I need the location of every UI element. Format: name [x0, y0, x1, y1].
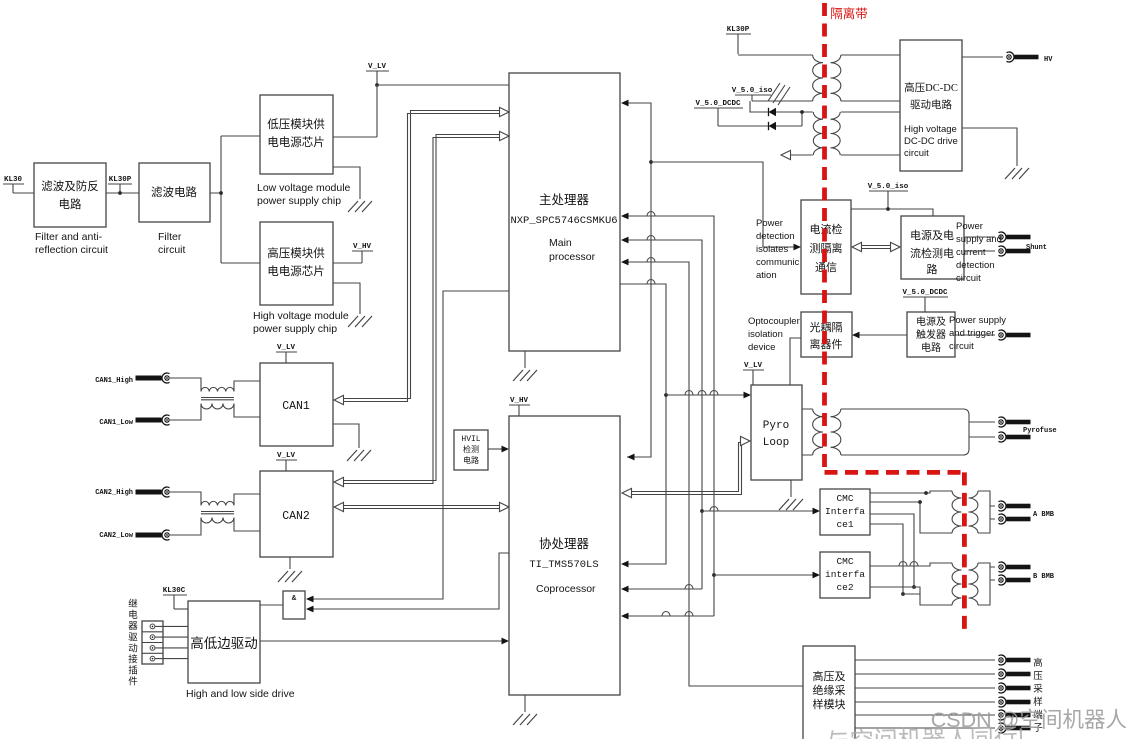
ground main processor — [513, 370, 537, 381]
ground high voltage chip — [348, 316, 372, 327]
svg-text:device: device — [748, 342, 775, 353]
block Pyro Loop — [751, 385, 802, 480]
wire tap2 bottom into coprocessor — [627, 588, 702, 590]
connector Pyrofuse pin2 — [999, 432, 1031, 442]
wire Pyro to firing transformer — [802, 409, 813, 455]
block optocoupler isolation device 光耦隔离器件 — [801, 312, 852, 357]
svg-text:CAN2: CAN2 — [282, 510, 310, 523]
wires diodes to transformer T2 — [718, 101, 813, 126]
svg-text:样: 样 — [1033, 696, 1043, 708]
wire trigger to connector — [955, 334, 995, 336]
bus isolation box to power/current detect box (double line) — [857, 246, 895, 249]
isolation belt red dashed line — [822, 3, 827, 470]
svg-text:高: 高 — [1033, 657, 1043, 669]
wire main proc tap2 down to CMC interface1 — [627, 240, 702, 589]
svg-text:Power: Power — [956, 221, 983, 232]
transformer B BMB left winding — [952, 563, 961, 605]
wire T2 bottom return with open arrow — [788, 154, 813, 156]
svg-text:current: current — [956, 247, 986, 258]
svg-text:样模块: 样模块 — [813, 697, 846, 711]
svg-text:高压DC-DC: 高压DC-DC — [904, 81, 958, 94]
diode D1 — [769, 108, 777, 116]
block power supply and current detection circuit 电源及电流检测电路 — [901, 216, 964, 279]
wire main proc tap4 into coprocessor — [620, 284, 666, 564]
connector A BMB pin2 — [999, 514, 1031, 524]
svg-text:KL30C: KL30C — [163, 587, 186, 595]
svg-text:circuit: circuit — [956, 273, 981, 284]
connector Pyrofuse pin1 — [999, 417, 1031, 427]
connector HV sampling terminal y=715 — [999, 710, 1031, 720]
svg-text:circuit: circuit — [158, 244, 186, 256]
svg-text:V_LV: V_LV — [277, 344, 296, 352]
svg-text:V_5.0_iso: V_5.0_iso — [868, 183, 909, 191]
common-mode choke CAN2 — [201, 501, 234, 505]
svg-text:V_HV: V_HV — [353, 243, 372, 251]
svg-text:滤波电路: 滤波电路 — [151, 185, 197, 199]
svg-text:CAN2_High: CAN2_High — [95, 489, 133, 497]
svg-text:低压模块供: 低压模块供 — [267, 117, 325, 131]
svg-text:isolation: isolation — [748, 329, 783, 340]
wire KL30C into drive box — [174, 608, 188, 610]
svg-text:接: 接 — [128, 654, 138, 666]
wire branch to Pyro Loop — [666, 394, 745, 396]
svg-text:电电源芯片: 电电源芯片 — [267, 135, 325, 149]
ground DC-DC — [1005, 168, 1029, 179]
transformer T2 left winding — [813, 112, 823, 155]
op main processor 主处理器 NXP_SPC5746CSMKU6 — [509, 73, 620, 351]
block power supply and trigger circuit 电源及触发器电路 — [907, 312, 955, 357]
svg-text:Pyrofuse: Pyrofuse — [1023, 427, 1057, 435]
block CMC interface2 — [820, 552, 870, 598]
connector HV sampling terminal y=702 — [999, 697, 1031, 707]
break marks on V_5.0_iso wire — [768, 83, 790, 105]
diode D2 — [769, 122, 777, 130]
wire CAN1 ground — [333, 424, 359, 448]
node KL30P junction — [118, 191, 122, 195]
wire KL30P to transformer T1 — [738, 54, 813, 56]
svg-text:Filter: Filter — [158, 231, 182, 243]
svg-text:Power supply: Power supply — [949, 315, 1006, 326]
svg-text:DC-DC drive: DC-DC drive — [904, 136, 958, 147]
transformer T1 right winding — [830, 55, 840, 101]
svg-text:采: 采 — [1033, 684, 1043, 695]
svg-text:power supply chip: power supply chip — [253, 323, 337, 335]
svg-text:Coprocessor: Coprocessor — [536, 583, 596, 595]
svg-text:电路: 电路 — [921, 341, 941, 354]
svg-text:CAN1: CAN1 — [282, 400, 310, 413]
svg-text:检测: 检测 — [463, 444, 479, 454]
svg-text:Pyro: Pyro — [763, 420, 789, 432]
wires CMC1 lower pins crossing down to transformer B — [870, 514, 914, 594]
svg-text:器: 器 — [128, 621, 138, 632]
svg-text:TI_TMS570LS: TI_TMS570LS — [529, 559, 598, 571]
svg-text:触发器: 触发器 — [916, 328, 946, 341]
wires sampling module outputs — [855, 660, 995, 728]
wire main proc tap1 down to CMC interface2 — [627, 216, 714, 616]
svg-text:High and low side drive: High and low side drive — [186, 688, 295, 700]
svg-text:电电源芯片: 电电源芯片 — [267, 264, 325, 278]
svg-text:A BMB: A BMB — [1033, 511, 1055, 519]
wire crossing hops — [647, 212, 655, 217]
wire box1 to box2 with KL30P tap — [106, 192, 139, 194]
svg-text:继: 继 — [128, 598, 138, 610]
wire filter output branch to both supply chips — [210, 136, 260, 263]
svg-text:HVIL: HVIL — [461, 435, 480, 444]
wire CAN2_High to choke and CAN2 — [170, 492, 260, 505]
block high voltage DC-DC drive circuit 高压DC-DC驱动电路 — [900, 40, 962, 171]
wire main proc tap3 down to sampling module — [627, 262, 803, 686]
bus CAN2 to main processor (double line) — [339, 135, 504, 481]
svg-text:detection: detection — [756, 231, 795, 242]
block high voltage and insulation sampling module 高压及绝缘采样模块 — [803, 646, 855, 739]
ground low voltage chip — [348, 201, 372, 212]
svg-text:B BMB: B BMB — [1033, 573, 1055, 581]
transformer pyro left winding — [813, 409, 823, 455]
wire trigger to optocoupler — [858, 334, 907, 336]
connector Shunt pin1 — [999, 232, 1031, 242]
ground Pyro Loop — [779, 499, 803, 510]
svg-text:High voltage: High voltage — [904, 124, 957, 135]
svg-text:Filter and anti-: Filter and anti- — [35, 231, 103, 243]
wire main processor ground — [524, 351, 526, 368]
svg-text:件: 件 — [128, 676, 138, 688]
wire high-voltage chip to ground — [333, 283, 360, 314]
svg-text:V_5.0_DCDC: V_5.0_DCDC — [902, 289, 948, 297]
svg-text:协处理器: 协处理器 — [539, 536, 590, 551]
wire CAN1_High to choke and CAN1 — [170, 378, 260, 391]
block: high voltage module power supply chip 高压模块供电电源芯片 — [260, 222, 333, 305]
wires relay pins to drive box — [155, 626, 188, 658]
connector HV — [1007, 52, 1039, 62]
svg-text:电: 电 — [128, 609, 138, 621]
svg-text:高压模块供: 高压模块供 — [267, 246, 325, 260]
wire crossing hops near transformer B — [899, 562, 907, 567]
transformer A BMB left winding — [952, 491, 961, 533]
wires CMC1 to transformer A — [870, 491, 952, 533]
wire pyrofuse loop — [841, 409, 969, 455]
wire comm branch to current-detect isolation box — [651, 162, 795, 247]
svg-text:interfa: interfa — [825, 569, 865, 580]
svg-text:CAN2_Low: CAN2_Low — [99, 532, 133, 540]
op coprocessor 协处理器 TI_TMS570LS — [509, 416, 620, 695]
svg-text:高压及: 高压及 — [813, 669, 846, 683]
svg-text:Optocoupler: Optocoupler — [748, 316, 800, 327]
wire optocoupler to Pyro Loop — [790, 338, 801, 385]
wire DC-DC to ground — [962, 128, 1017, 166]
wire CAN2 ground — [289, 557, 291, 569]
svg-text:CAN1_Low: CAN1_Low — [99, 419, 133, 427]
block high and low side drive 高低边驱动 — [188, 601, 260, 683]
svg-text:驱动电路: 驱动电路 — [910, 98, 952, 111]
svg-text:动: 动 — [128, 643, 138, 654]
connector B BMB pin1 — [999, 562, 1031, 572]
svg-text:V_LV: V_LV — [744, 362, 763, 370]
transformer B BMB right winding — [969, 563, 978, 605]
svg-text:V_LV: V_LV — [277, 452, 296, 460]
svg-text:CMC: CMC — [836, 556, 853, 567]
wire T2 secondary to DC-DC box — [841, 112, 900, 155]
svg-text:Shunt: Shunt — [1026, 244, 1047, 252]
svg-text:隔离带: 隔离带 — [830, 6, 868, 21]
wire low-voltage chip to V_LV — [333, 85, 377, 137]
wire coprocessor ground — [524, 695, 526, 712]
ground coprocessor — [513, 714, 537, 725]
svg-text:NXP_SPC5746CSMKU6: NXP_SPC5746CSMKU6 — [510, 215, 617, 227]
svg-text:circuit: circuit — [904, 148, 929, 159]
svg-text:电路: 电路 — [59, 197, 82, 211]
wire HVIL to coprocessor — [488, 448, 502, 450]
svg-text:高低边驱动: 高低边驱动 — [190, 635, 258, 651]
connector trigger output — [999, 330, 1031, 340]
svg-text:路: 路 — [927, 263, 938, 276]
svg-text:电源及: 电源及 — [916, 315, 946, 328]
svg-text:主处理器: 主处理器 — [539, 193, 590, 207]
wire drive box to AND gate — [260, 604, 283, 606]
block CAN1 transceiver — [260, 363, 333, 446]
transformer A BMB right winding — [968, 491, 977, 533]
wire KL30 to filter box — [13, 192, 34, 194]
svg-text:插: 插 — [128, 665, 138, 677]
svg-text:isolates: isolates — [756, 244, 788, 255]
transformer pyro right winding — [831, 409, 841, 455]
wires transformer B to B BMB connectors — [978, 563, 995, 605]
bus CAN2 to coprocessor (double line, both arrows) — [340, 506, 503, 509]
wire Pyro ground — [790, 480, 792, 497]
connector HV sampling terminal y=728 — [999, 723, 1031, 733]
svg-text:电路: 电路 — [463, 455, 479, 465]
wires loop to Pyrofuse connectors — [969, 422, 995, 437]
wire T1 secondary to DC-DC box — [841, 55, 900, 101]
block: low voltage module power supply chip 低压模块供电电源芯片 — [260, 95, 333, 174]
svg-text:绝缘采: 绝缘采 — [813, 683, 846, 697]
svg-text:reflection circuit: reflection circuit — [35, 244, 108, 256]
block: filter and anti-reverse circuit 滤波及防反电路 — [34, 163, 106, 227]
wire DC-DC to HV connector — [962, 56, 1003, 58]
svg-text:压: 压 — [1033, 671, 1043, 682]
transformer T2 right winding — [831, 112, 841, 155]
connector HV sampling terminal y=688 — [999, 683, 1031, 693]
wire comm net: main processor to coprocessor and isolation box — [627, 103, 651, 457]
wires CMC2 to transformer B — [870, 563, 952, 605]
block HVIL detection circuit HVIL检测电路 — [454, 430, 488, 470]
svg-text:detection: detection — [956, 260, 995, 271]
wire drive box to coprocessor — [260, 640, 502, 642]
node branch junction — [219, 191, 223, 195]
bus CAN1 to main processor (double line) — [339, 111, 504, 399]
svg-text:流检测电: 流检测电 — [910, 246, 954, 260]
svg-text:Interfa: Interfa — [825, 506, 865, 517]
svg-text:CMC: CMC — [836, 493, 853, 504]
svg-text:CAN1_High: CAN1_High — [95, 377, 133, 385]
relay connector cells and pins — [142, 632, 163, 654]
svg-text:V_LV: V_LV — [368, 63, 387, 71]
block CAN2 transceiver — [260, 471, 333, 557]
wires to Shunt connectors — [964, 237, 995, 251]
logic gate & block — [283, 591, 305, 619]
svg-text:Loop: Loop — [763, 437, 789, 449]
svg-text:ce1: ce1 — [836, 519, 853, 530]
svg-text:processor: processor — [549, 251, 596, 263]
connector HV sampling terminal y=674 — [999, 669, 1031, 679]
svg-text:V_5.0_DCDC: V_5.0_DCDC — [695, 100, 741, 108]
svg-text:High voltage module: High voltage module — [253, 310, 349, 322]
svg-text:supply and: supply and — [956, 234, 1002, 245]
svg-text:circuit: circuit — [949, 341, 974, 352]
wire V_5.0_iso to T1 — [752, 100, 813, 102]
wire CAN1_Low to choke and CAN1 — [170, 404, 260, 420]
wire main processor to gate input 1 — [313, 291, 509, 599]
svg-text:&: & — [292, 595, 297, 603]
block: filter circuit 滤波电路 — [139, 163, 210, 222]
svg-text:驱: 驱 — [128, 632, 138, 643]
svg-text:滤波及防反: 滤波及防反 — [41, 179, 99, 193]
block current detection isolated communication 电流检测隔离通信 — [801, 200, 851, 294]
svg-text:communic: communic — [756, 257, 800, 268]
svg-text:Low voltage module: Low voltage module — [257, 182, 351, 194]
svg-text:ation: ation — [756, 270, 777, 281]
svg-text:V_HV: V_HV — [510, 397, 529, 405]
transformer T1 (high volt DC-DC) left winding — [813, 55, 823, 101]
svg-text:KL30: KL30 — [4, 176, 23, 184]
connector block relay outputs — [142, 621, 163, 664]
wire V_LV rail to main processor — [377, 84, 509, 86]
connector HV sampling terminal y=660 — [999, 655, 1031, 665]
connector B BMB pin2 — [999, 575, 1031, 585]
node V_LV junction — [375, 83, 379, 87]
wire tap1 bottom into coprocessor — [627, 615, 714, 617]
connector A BMB pin1 — [999, 501, 1031, 511]
wires transformer A to A BMB connectors — [978, 491, 995, 533]
bus coprocessor to Pyro Loop (double line) — [628, 440, 744, 495]
svg-text:KL30P: KL30P — [727, 26, 750, 34]
wire V_5.0_iso tap into power/current detection box — [851, 209, 933, 216]
common-mode choke CAN1 — [201, 387, 234, 391]
wire CAN2_Low to choke and CAN2 — [170, 518, 260, 535]
svg-text:power supply chip: power supply chip — [257, 195, 341, 207]
svg-text:ce2: ce2 — [836, 582, 853, 593]
svg-text:电源及电: 电源及电 — [910, 228, 954, 242]
ground CAN2 — [278, 571, 302, 582]
connector Shunt pin2 — [999, 246, 1031, 256]
wire coprocessor to gate input 2 — [313, 553, 509, 609]
ground CAN1 — [347, 450, 371, 461]
svg-text:Power: Power — [756, 218, 783, 229]
svg-text:Main: Main — [549, 237, 572, 249]
svg-text:KL30P: KL30P — [109, 176, 132, 184]
block CMC Interface1 — [820, 489, 870, 535]
svg-text:V_5.0_iso: V_5.0_iso — [732, 87, 773, 95]
wire high-voltage chip V_HV tap — [333, 262, 362, 264]
wire low-voltage chip to ground — [333, 167, 360, 199]
svg-text:HV: HV — [1044, 56, 1053, 64]
svg-text:and trigger: and trigger — [949, 328, 994, 339]
